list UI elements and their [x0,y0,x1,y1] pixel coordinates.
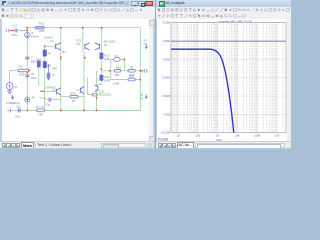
svg-text:R7.10: R7.10 [37,105,44,109]
ground below V1 [7,89,12,93]
svg-text:-2.500: -2.500 [162,76,171,80]
wire Q8 base [76,89,80,91]
svg-text:I1: I1 [31,31,34,35]
node output row 2 right [139,79,141,81]
wire red segment input [10,30,14,32]
svg-text:R15: R15 [36,57,41,61]
plot frame [171,22,286,132]
plot client area [157,19,287,141]
svg-text:C11: C11 [16,104,21,108]
svg-text:MJL1000C: MJL1000C [99,93,112,97]
right AC Analysis window [156,0,291,149]
svg-text:8.4R: 8.4R [104,79,110,83]
node Q1 base [44,45,46,47]
svg-text:200u: 200u [15,115,21,119]
svg-text:1.96: 1.96 [38,112,44,116]
wire rail B [60,28,62,111]
node bus junction D [101,27,103,29]
wire red segment load [141,70,143,72]
wire Q10 emitter [96,71,98,111]
y axis labels [160,21,170,135]
svg-text:-10.000: -10.000 [160,131,170,135]
grid minor verticals [172,22,283,132]
svg-text:V1: V1 [14,85,18,89]
svg-text:100k: 100k [254,134,261,138]
node bottom junction D [96,110,98,112]
grid horizontals [171,41,286,115]
node rail C junction [84,57,86,59]
svg-text:1k: 1k [216,134,220,138]
current meter circle [25,97,30,102]
svg-text:1k: 1k [52,73,55,77]
wire red segment Q10 [96,97,98,99]
svg-text:B1: B1 [63,50,67,54]
svg-text:2.500: 2.500 [163,39,171,43]
resistor RB [92,93,97,96]
wire input bottom row [11,109,27,111]
svg-text:1M: 1M [275,134,280,138]
horizontal reference trace [171,40,286,42]
gain curve [171,49,234,132]
node output right [139,70,141,72]
transistor Q8 [80,87,84,94]
current source I1 [25,32,30,37]
wire output row [101,70,140,72]
grid major verticals [178,22,277,132]
svg-text:-7.500: -7.500 [162,113,171,117]
canvas [2,19,149,141]
svg-text:QB: QB [52,89,56,93]
wire QB base [45,90,57,92]
svg-text:5.000: 5.000 [163,21,171,25]
voltage source V1 [6,83,13,90]
generator VG2 [8,109,10,113]
wire top supply bus [26,27,141,29]
svg-text:10k: 10k [235,134,240,138]
tab bar [0,141,153,149]
resistor R17 [18,69,29,72]
svg-text:C12: C12 [12,23,17,27]
capacitor C10 [49,98,51,102]
svg-text:R17: R17 [19,65,24,69]
vertical scrollbar [149,19,154,141]
wire RUS row [61,96,84,98]
wire red segment rail D [100,68,102,70]
tab bar [156,141,291,149]
resistor R3 [43,62,46,68]
wire left rail [26,28,28,111]
svg-text:Q1: Q1 [50,39,54,43]
load probe [144,69,147,73]
wire Q1 base branch [45,45,56,47]
wire feedback [38,67,40,86]
svg-text:200u: 200u [31,76,37,80]
svg-text:0.4mA: 0.4mA [31,35,39,39]
resistor R4 [43,50,46,56]
resistor R24 [128,78,135,81]
wire bottom ground bus [27,109,140,111]
node bottom junction C [83,110,85,112]
svg-text:R24: R24 [129,75,134,79]
svg-text:1.96k: 1.96k [113,81,120,85]
wire cap row [45,99,61,101]
wire R17 branch [14,69,19,71]
svg-text:Q3: Q3 [77,42,81,46]
svg-text:R6: R6 [130,66,134,70]
toolbar row 2 [0,13,155,20]
node bus junction B [60,27,62,29]
svg-text:0.000: 0.000 [163,57,171,61]
svg-text:200u: 200u [12,33,18,37]
svg-text:8.48: 8.48 [104,57,110,61]
svg-text:C10: C10 [41,96,46,100]
svg-text:2W5: 2W5 [39,29,45,33]
node bus junction C [82,27,84,29]
wire L3 loop [111,59,125,70]
wire input row [10,30,28,32]
wire chain E [44,46,46,110]
resistor RCO [100,53,103,59]
svg-text:C7: C7 [31,55,35,59]
svg-text:RC8: RC8 [39,22,45,26]
capacitor C8 [25,75,29,77]
svg-text:20: 20 [72,99,75,103]
generator VG1 [6,29,9,32]
resistor RQ6 [100,75,103,80]
svg-text:R08: R08 [52,66,57,70]
toolbar row 1 [0,7,155,14]
resistor R15 [37,61,40,67]
wire driver link [88,78,93,95]
title bar [0,0,155,8]
svg-text:3.3u: 3.3u [45,102,51,106]
capacitor C12 [15,29,17,33]
node input junction [26,30,28,32]
svg-text:R19: R19 [116,66,121,70]
resistor R7 on bottom bus [37,109,45,112]
svg-text:-5.000: -5.000 [162,94,171,98]
svg-text:RQ6: RQ6 [104,75,110,79]
svg-text:100: 100 [195,134,200,138]
node bottom junction A [26,110,28,112]
svg-text:17R: 17R [114,73,119,77]
wire rail C [83,28,84,111]
svg-text:RUS: RUS [71,91,77,95]
node output row left [109,70,111,72]
x axis labels [176,134,279,138]
svg-text:N3: N3 [140,96,144,100]
resistor RC8 on bus [35,26,44,29]
wire output row 2 [111,71,141,80]
capacitor C7 [25,57,29,59]
svg-text:IM: IM [32,96,35,100]
svg-text:R4: R4 [48,52,52,56]
resistor R19 [114,70,120,73]
node bottom junction B [60,110,62,112]
node L3 right [124,59,126,61]
wire rail D [97,28,102,85]
node R17 corner [28,70,30,72]
capacitor C11 [18,108,20,112]
left schematic editor window [0,0,157,149]
wire red segment QB base [40,90,44,92]
resistor R6 [128,70,135,73]
node rail junction C8 [26,72,28,74]
svg-text:RC3: RC3 [76,39,82,43]
svg-text:C8: C8 [31,72,35,76]
transistor Q10 [95,85,98,92]
node bus junction A [26,27,28,29]
wire right rail [139,28,141,111]
svg-text:200k: 200k [19,73,25,77]
wire red segment rail B [60,56,62,60]
ammeter arrow [11,95,13,99]
svg-text:10: 10 [176,134,180,138]
svg-text:2N5551: 2N5551 [44,36,54,40]
svg-text:Q4: Q4 [104,43,108,47]
caption buttons [131,1,138,6]
resistor RUS [70,95,78,98]
diode chain D5 [47,65,50,81]
